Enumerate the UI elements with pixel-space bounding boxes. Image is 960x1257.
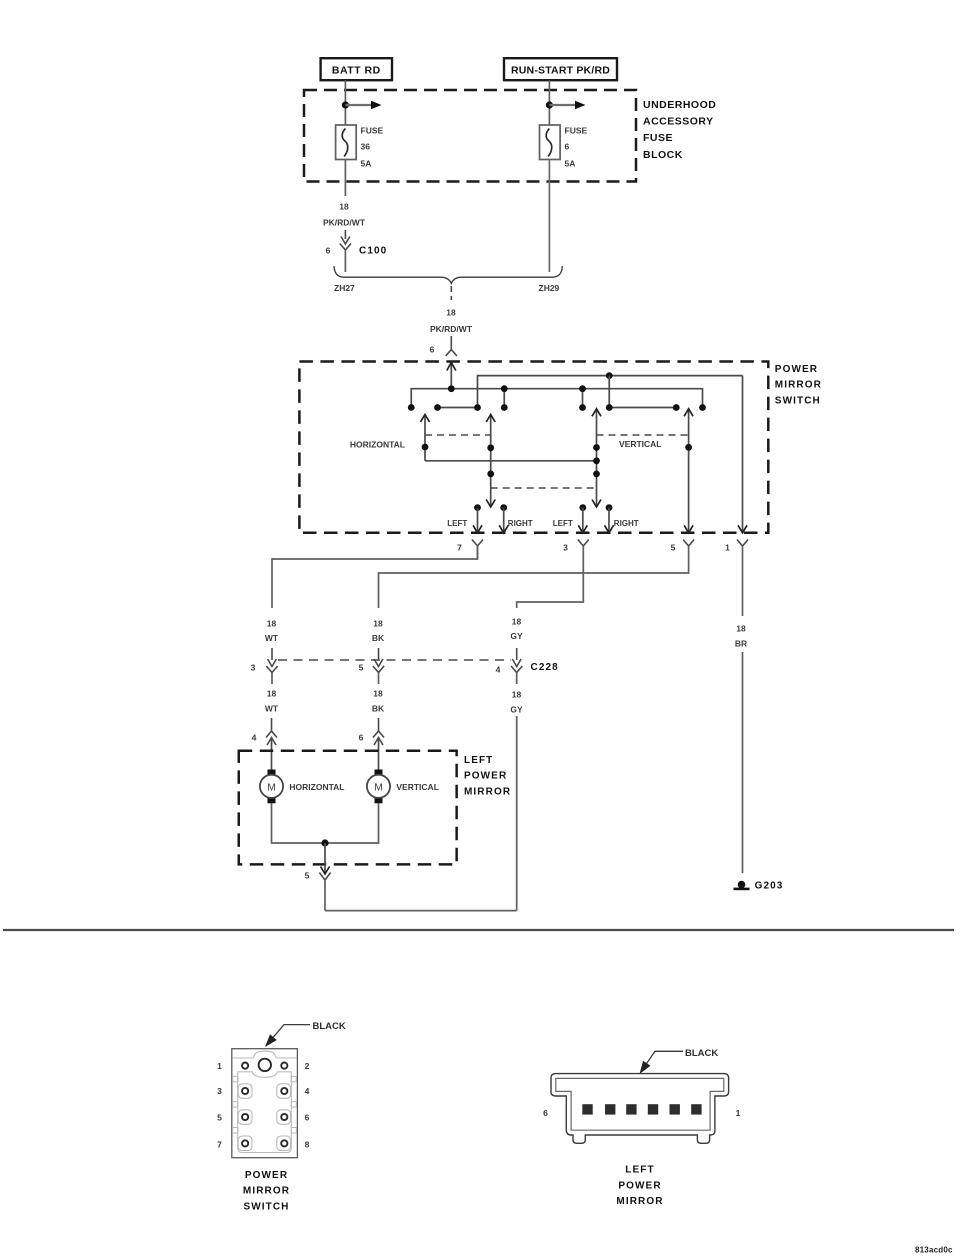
node dot bus B x609 xyxy=(606,372,613,379)
node dot bus A x504 xyxy=(501,385,508,392)
wire feed entry arrow pin 6 xyxy=(447,363,456,389)
svg-text:BLOCK: BLOCK xyxy=(643,149,683,161)
svg-text:18: 18 xyxy=(512,690,522,700)
svg-text:POWER: POWER xyxy=(245,1170,288,1181)
connector pin 6 entry to switch xyxy=(430,336,457,356)
label LEFT POWER MIRROR xyxy=(464,755,511,798)
pin labels mirror connector xyxy=(543,1108,741,1118)
svg-text:HORIZONTAL: HORIZONTAL xyxy=(350,440,405,450)
connector mirror pin 5 xyxy=(305,871,331,911)
connector mirror pin 6 xyxy=(359,718,384,770)
left power mirror connector face xyxy=(551,1074,729,1144)
label BLACK switch connector xyxy=(265,1021,346,1047)
svg-text:POWER: POWER xyxy=(464,771,507,782)
svg-text:18: 18 xyxy=(267,619,277,629)
wire bus A xyxy=(411,389,702,408)
svg-text:GY: GY xyxy=(510,705,523,715)
svg-text:C228: C228 xyxy=(531,662,559,673)
wire terminal 3 to C228 pin 4 (18 GY) xyxy=(517,559,584,608)
svg-text:POWER: POWER xyxy=(775,364,818,375)
svg-text:18: 18 xyxy=(446,308,456,318)
svg-text:FUSE: FUSE xyxy=(643,132,673,144)
wire contact 609 to bus B xyxy=(608,376,610,408)
svg-text:SWITCH: SWITCH xyxy=(775,395,821,406)
motor M horizontal xyxy=(260,770,283,804)
wire fuse 36 down to C100 xyxy=(344,160,346,197)
underhood accessory fuse block (dashed box) xyxy=(304,90,636,182)
wire arrow tap left xyxy=(345,101,381,109)
switch wiper vertical-right xyxy=(684,409,693,533)
svg-text:18: 18 xyxy=(339,202,349,212)
wire 18 GY down right side xyxy=(516,716,518,911)
svg-text:1: 1 xyxy=(736,1108,741,1118)
label 18 PK/RD/WT center xyxy=(430,308,473,335)
label 18 PK/RD/WT left xyxy=(323,202,366,228)
node contact dots row xyxy=(408,404,706,411)
wire link contacts 609-676 xyxy=(609,407,676,409)
left power mirror (dashed box) xyxy=(239,751,457,865)
svg-text:PK/RD/WT: PK/RD/WT xyxy=(430,324,473,334)
svg-text:5: 5 xyxy=(305,871,310,881)
label POWER MIRROR SWITCH bottom xyxy=(243,1170,290,1212)
svg-text:ACCESSORY: ACCESSORY xyxy=(643,116,714,128)
label 18 BK lower xyxy=(372,689,385,714)
svg-text:BLACK: BLACK xyxy=(685,1048,718,1059)
svg-text:8: 8 xyxy=(305,1139,310,1149)
svg-text:BLACK: BLACK xyxy=(313,1021,346,1032)
label 18 GY upper xyxy=(510,617,523,642)
connector terminal 7 xyxy=(457,540,483,560)
ground G203 xyxy=(734,881,784,892)
svg-text:PK/RD/WT: PK/RD/WT xyxy=(323,218,366,228)
connector terminal 5 xyxy=(671,540,694,560)
svg-text:5: 5 xyxy=(671,543,676,553)
svg-text:6: 6 xyxy=(326,246,331,256)
svg-text:WT: WT xyxy=(265,704,279,714)
wire terminal 5 to C228 pin 5 (18 BK) xyxy=(379,559,689,608)
svg-text:VERTICAL: VERTICAL xyxy=(619,439,662,449)
svg-text:4: 4 xyxy=(496,665,501,675)
svg-text:GY: GY xyxy=(510,631,523,641)
svg-text:WT: WT xyxy=(265,633,279,643)
svg-text:M: M xyxy=(374,782,382,793)
svg-text:6: 6 xyxy=(565,142,570,152)
svg-text:SWITCH: SWITCH xyxy=(243,1201,289,1212)
label 18 WT upper xyxy=(265,619,279,644)
power mirror switch (dashed box) xyxy=(299,362,768,533)
svg-text:POWER: POWER xyxy=(618,1180,661,1191)
wire contact RIGHT stub 1 xyxy=(499,504,508,533)
node dot bus A x582 xyxy=(579,385,586,392)
connector C228 pin 4 xyxy=(496,648,559,684)
switch wiper vertical-left xyxy=(592,409,601,507)
svg-text:5: 5 xyxy=(359,663,364,673)
wire bus B xyxy=(478,376,743,408)
svg-text:18: 18 xyxy=(373,619,383,629)
node RUN-START PK/RD xyxy=(504,58,617,80)
node junction dot right xyxy=(546,101,553,108)
svg-text:18: 18 xyxy=(373,689,383,699)
svg-text:BATT RD: BATT RD xyxy=(332,65,381,77)
label 18 BR xyxy=(735,624,747,649)
svg-text:1: 1 xyxy=(217,1061,222,1071)
connector terminal 3 xyxy=(563,540,589,560)
svg-text:C100: C100 xyxy=(359,246,387,257)
svg-text:6: 6 xyxy=(543,1108,548,1118)
wire fuse 6 down to splice brace xyxy=(548,160,550,273)
wire 18 BR terminal 1 down xyxy=(742,560,744,873)
label 18 GY lower xyxy=(510,690,523,715)
wire bus C xyxy=(425,460,597,462)
node mirror common junction xyxy=(321,839,328,846)
svg-text:LEFT: LEFT xyxy=(447,519,467,528)
wire contact LEFT out to terminal 7 xyxy=(473,504,482,533)
wire contact 504 to bus A xyxy=(503,389,505,408)
svg-text:BK: BK xyxy=(372,633,385,643)
pin labels switch connector xyxy=(217,1061,310,1149)
splice brace ZH27 ZH29 xyxy=(334,266,562,284)
label 18 BK upper xyxy=(372,619,385,644)
svg-text:1: 1 xyxy=(725,543,730,553)
wire RUN-START to fuse 6 xyxy=(548,80,550,125)
node junction dot left xyxy=(342,101,349,108)
svg-text:813acd0c: 813acd0c xyxy=(915,1246,953,1255)
svg-text:LEFT: LEFT xyxy=(625,1165,654,1176)
separator rule xyxy=(3,929,954,931)
svg-text:18: 18 xyxy=(267,689,277,699)
wire motor vertical to junction xyxy=(325,803,379,843)
svg-text:MIRROR: MIRROR xyxy=(775,380,822,391)
wire BATT RD to fuse 36 xyxy=(344,80,346,125)
svg-text:LEFT: LEFT xyxy=(553,519,573,528)
svg-text:3: 3 xyxy=(217,1086,222,1096)
wire dashed coupling horizontal xyxy=(425,434,491,436)
fuse 36 5A xyxy=(336,125,384,168)
fuse 6 5A xyxy=(540,125,588,168)
label BLACK mirror connector xyxy=(640,1048,719,1074)
svg-text:5: 5 xyxy=(217,1113,222,1123)
svg-text:ZH29: ZH29 xyxy=(539,283,560,293)
svg-text:5A: 5A xyxy=(361,158,372,168)
svg-text:2: 2 xyxy=(305,1061,310,1071)
svg-text:7: 7 xyxy=(217,1139,222,1149)
svg-text:FUSE: FUSE xyxy=(565,125,588,135)
svg-text:6: 6 xyxy=(359,733,364,743)
svg-text:36: 36 xyxy=(361,142,371,152)
label POWER MIRROR SWITCH xyxy=(775,364,822,406)
svg-text:MIRROR: MIRROR xyxy=(243,1186,290,1197)
wire dashed coupling vertical xyxy=(597,434,689,436)
mirror connector pins xyxy=(582,1104,701,1114)
wire link contacts 437-477 xyxy=(438,407,478,409)
svg-text:RIGHT: RIGHT xyxy=(508,519,533,528)
wire contact LEFT out to terminal 3 xyxy=(578,504,587,533)
svg-text:6: 6 xyxy=(430,345,435,355)
svg-text:MIRROR: MIRROR xyxy=(616,1196,663,1207)
switch wiper horizontal-left xyxy=(421,415,430,461)
svg-text:6: 6 xyxy=(305,1113,310,1123)
svg-text:3: 3 xyxy=(251,663,256,673)
svg-text:BR: BR xyxy=(735,639,747,649)
svg-text:HORIZONTAL: HORIZONTAL xyxy=(289,782,344,792)
wire mirror return to GY xyxy=(325,910,517,912)
motor M vertical xyxy=(367,770,390,804)
wire motor horizontal to junction xyxy=(272,803,326,843)
svg-text:FUSE: FUSE xyxy=(361,125,384,135)
connector C228 pin 5 xyxy=(359,648,384,684)
wire contact 582 to bus A xyxy=(582,389,584,408)
wire terminal 1 inside xyxy=(738,376,747,533)
svg-text:7: 7 xyxy=(457,543,462,553)
node BATT RD xyxy=(321,58,392,80)
wire arrow tap right xyxy=(549,101,585,109)
connector terminal 1 xyxy=(725,540,748,561)
label 18 WT lower xyxy=(265,689,279,714)
connector C100 xyxy=(326,230,388,272)
svg-text:ZH27: ZH27 xyxy=(334,283,355,293)
svg-text:LEFT: LEFT xyxy=(464,755,493,766)
wire dashed coupling middle xyxy=(491,487,597,489)
svg-text:RIGHT: RIGHT xyxy=(614,519,639,528)
connector C228 pin 3 xyxy=(251,648,278,684)
power mirror switch connector face xyxy=(232,1049,298,1158)
svg-text:4: 4 xyxy=(252,733,257,743)
svg-text:VERTICAL: VERTICAL xyxy=(396,782,439,792)
svg-text:18: 18 xyxy=(512,617,522,627)
svg-text:M: M xyxy=(267,782,275,793)
wire contact RIGHT stub 2 xyxy=(605,504,614,533)
wire dashed link C228 xyxy=(278,659,511,661)
svg-text:BK: BK xyxy=(372,704,385,714)
svg-text:G203: G203 xyxy=(755,881,784,892)
svg-text:RUN-START PK/RD: RUN-START PK/RD xyxy=(511,65,610,77)
switch wiper horizontal-right xyxy=(486,415,495,508)
label UNDERHOOD ACCESSORY FUSE BLOCK xyxy=(643,99,716,161)
svg-text:MIRROR: MIRROR xyxy=(464,786,511,797)
wire mirror pin 5 exit xyxy=(321,843,330,874)
svg-text:5A: 5A xyxy=(565,158,576,168)
connector mirror pin 4 xyxy=(252,718,277,770)
wire terminal 7 to C228 pin 3 (18 WT) xyxy=(272,545,478,608)
wire dashed stub below brace xyxy=(450,286,452,300)
svg-text:UNDERHOOD: UNDERHOOD xyxy=(643,99,716,111)
svg-text:18: 18 xyxy=(736,624,746,634)
node feed dot on bus A xyxy=(448,385,455,392)
label LEFT POWER MIRROR bottom xyxy=(616,1165,663,1208)
svg-text:3: 3 xyxy=(563,543,568,553)
svg-text:4: 4 xyxy=(305,1086,310,1096)
